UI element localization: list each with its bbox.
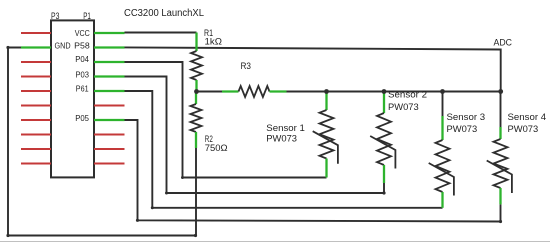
wire node to Sensor3 top bbox=[442, 92, 444, 117]
wire P61 to Sensor3 bottom bbox=[125, 91, 443, 208]
node junction x=326.5 ADC net bbox=[324, 89, 329, 94]
svg-text:R3: R3 bbox=[241, 61, 252, 72]
svg-text:PW073: PW073 bbox=[447, 124, 478, 135]
wire P58 to ADC node bbox=[125, 47, 501, 91]
resistor R2 top lead bbox=[195, 92, 197, 105]
resistor R3 left lead bbox=[222, 90, 239, 92]
sensor Sensor 3 zigzag bbox=[436, 140, 450, 192]
pin stub P1 unconnected right bbox=[94, 104, 125, 106]
svg-text:PW073: PW073 bbox=[388, 102, 419, 113]
bendpoint P05 corner bbox=[136, 219, 139, 222]
sensor Sensor 4 thermistor mark bbox=[487, 161, 512, 194]
sensor Sensor 4 zigzag bbox=[494, 139, 508, 188]
sensor Sensor 2 thermistor mark bbox=[370, 136, 395, 169]
svg-text:Sensor 4: Sensor 4 bbox=[508, 112, 547, 123]
bendpoint GND corner bbox=[6, 46, 9, 49]
svg-text:P61: P61 bbox=[76, 84, 89, 94]
svg-text:P1: P1 bbox=[83, 11, 91, 22]
svg-text:ADC: ADC bbox=[494, 37, 513, 48]
resistor R3 right lead bbox=[270, 90, 287, 92]
sensor Sensor 1 thermistor mark bbox=[313, 131, 338, 164]
resistor R1 bottom lead bbox=[195, 80, 197, 92]
svg-text:PW073: PW073 bbox=[508, 124, 539, 135]
svg-text:VCC: VCC bbox=[75, 28, 90, 38]
sensor Sensor 3 thermistor mark bbox=[429, 163, 454, 196]
bendpoint P03 corner bbox=[165, 192, 168, 195]
svg-text:GND: GND bbox=[55, 41, 71, 51]
wire node to Sensor4 top bbox=[500, 92, 502, 128]
pin stub P3 unconnected left row1 bbox=[21, 32, 51, 34]
wire P03 to Sensor2 bottom bbox=[125, 77, 385, 194]
svg-text:CC3200 LaunchXL: CC3200 LaunchXL bbox=[124, 8, 204, 19]
pin stub P3 unconnected left row6 bbox=[21, 104, 51, 106]
pin P03 right connected bbox=[94, 75, 125, 77]
node junction x=384 ADC net bbox=[382, 89, 387, 94]
sensor Sensor 2 zigzag bbox=[377, 113, 391, 165]
IC header CC3200 LaunchXL body bbox=[51, 20, 94, 177]
pin P05 right connected bbox=[94, 119, 125, 121]
wire P05 to Sensor4 bottom bbox=[125, 120, 501, 222]
sensor Sensor 3 bottom lead bbox=[441, 192, 443, 208]
sensor Sensor 4 PW073 top lead bbox=[499, 127, 501, 139]
bendpoint GND rail corner bbox=[194, 234, 197, 237]
pin stub P3 unconnected left row3 bbox=[21, 61, 51, 63]
svg-text:1kΩ: 1kΩ bbox=[205, 36, 223, 47]
sensor Sensor 1 bottom lead bbox=[325, 159, 327, 178]
svg-text:Sensor 2: Sensor 2 bbox=[388, 90, 427, 101]
pin stub P3 unconnected left row4 bbox=[21, 75, 51, 77]
sensor Sensor 4 bottom lead bbox=[499, 188, 501, 204]
resistor R2 bottom lead bbox=[195, 132, 197, 148]
svg-text:P3: P3 bbox=[51, 11, 59, 22]
wire GND: left pin down along bottom to R2 bbox=[8, 48, 196, 236]
wire P04 to Sensor1 bottom bbox=[125, 62, 327, 178]
pin stub P3 unconnected left row9 bbox=[21, 148, 51, 150]
node junction x=500.7 ADC net bbox=[498, 89, 503, 94]
pin stub P3 unconnected left row8 bbox=[21, 133, 51, 135]
pin P04 right connected bbox=[94, 61, 125, 63]
bendpoint GND rail left corner bbox=[6, 234, 9, 237]
sensor Sensor 2 bottom lead bbox=[383, 165, 385, 183]
wire VCC to R1 top bbox=[125, 32, 197, 34]
wire Sensor4 bottom lead down bbox=[500, 204, 502, 221]
pin VCC right connected bbox=[94, 32, 125, 34]
bendpoint P61 corner bbox=[151, 206, 154, 209]
pin P61 right connected bbox=[94, 90, 125, 92]
resistor R1 top lead bbox=[195, 33, 197, 52]
sensor Sensor 3 PW073 top lead bbox=[441, 116, 443, 140]
node junction x=442.5 ADC net bbox=[440, 89, 445, 94]
wire Sensor2 bottom lead down bbox=[383, 183, 385, 193]
svg-text:P04: P04 bbox=[75, 54, 89, 64]
wire R2 bottom to GND rail bbox=[195, 148, 197, 236]
resistor R1 zigzag bbox=[191, 51, 202, 80]
pin stub P3 unconnected left row5 bbox=[21, 90, 51, 92]
wire R3 right across sensor nodes bbox=[287, 91, 501, 93]
svg-text:P03: P03 bbox=[76, 70, 90, 80]
svg-text:Sensor 1: Sensor 1 bbox=[266, 123, 305, 134]
wire node to R3 left bbox=[197, 91, 223, 93]
pin stub P1 unconnected right bbox=[94, 148, 125, 150]
svg-text:P05: P05 bbox=[75, 113, 89, 123]
pin P58 right connected bbox=[94, 46, 125, 48]
svg-text:P58: P58 bbox=[74, 41, 90, 51]
node junction x=196.5 ADC net bbox=[194, 89, 199, 94]
sensor Sensor 1 PW073 top lead bbox=[325, 92, 327, 111]
svg-text:750Ω: 750Ω bbox=[205, 143, 228, 154]
svg-text:PW073: PW073 bbox=[266, 134, 297, 145]
resistor R2 zigzag bbox=[191, 104, 202, 132]
bendpoint P04 corner bbox=[181, 176, 184, 179]
pin stub P3 unconnected left row7 bbox=[21, 119, 51, 121]
svg-text:Sensor 3: Sensor 3 bbox=[447, 112, 486, 123]
pin stub P1 unconnected right bbox=[94, 162, 125, 164]
resistor R3 zigzag bbox=[239, 86, 270, 97]
bendpoint Sensor2 corner bbox=[382, 191, 385, 194]
sensor Sensor 2 PW073 top lead bbox=[383, 92, 385, 114]
pin stub P1 unconnected right bbox=[94, 133, 125, 135]
sensor Sensor 1 zigzag bbox=[320, 110, 334, 159]
pin GND left row2 connected bbox=[21, 46, 51, 48]
bendpoint Sensor4 corner bbox=[499, 220, 502, 223]
page edge line bbox=[0, 241, 550, 243]
pin stub P3 unconnected left row10 bbox=[21, 162, 51, 164]
